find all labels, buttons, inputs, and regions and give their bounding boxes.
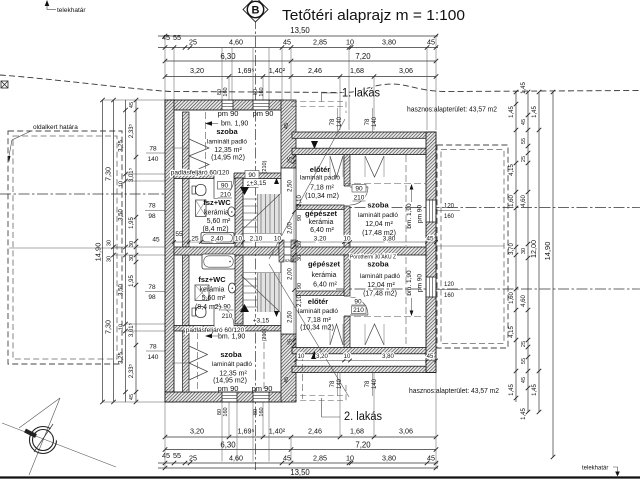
- svg-text:30: 30: [297, 255, 303, 261]
- svg-text:160: 160: [444, 293, 455, 299]
- svg-text:7,30: 7,30: [104, 167, 113, 181]
- svg-text:2,40: 2,40: [211, 236, 224, 243]
- svg-text:+3,15: +3,15: [253, 318, 270, 325]
- axis horizontal right lower dash-dot: [336, 288, 640, 290]
- svg-text:4,60: 4,60: [521, 195, 527, 207]
- svg-text:12,00: 12,00: [529, 240, 538, 258]
- svg-text:12,04 m²: 12,04 m²: [367, 282, 395, 289]
- label bm 1,90 bottom szoba: [205, 334, 212, 338]
- svg-text:(8,4 m2): (8,4 m2): [195, 304, 221, 311]
- svg-text:78: 78: [330, 380, 336, 387]
- svg-text:78: 78: [149, 344, 157, 351]
- svg-text:4,15: 4,15: [509, 164, 515, 176]
- svg-text:bm. 1,90: bm. 1,90: [406, 203, 413, 229]
- svg-text:(17,48 m2): (17,48 m2): [363, 291, 397, 298]
- svg-text:1,45: 1,45: [532, 106, 538, 118]
- svg-text:12,04 m²: 12,04 m²: [365, 221, 393, 228]
- svg-text:160: 160: [259, 87, 265, 96]
- knee wall strip upper left: [183, 112, 190, 247]
- svg-text:45: 45: [283, 454, 291, 463]
- window opening right wall upper: [427, 200, 436, 222]
- svg-text:45: 45: [521, 377, 527, 383]
- stair walk line lower: [241, 275, 280, 312]
- svg-text:hasznos:alapterület: 43,57 m2: hasznos:alapterület: 43,57 m2: [407, 105, 497, 114]
- svg-text:4,60: 4,60: [229, 454, 243, 463]
- svg-text:1. lakás: 1. lakás: [342, 88, 380, 100]
- svg-text:140: 140: [337, 116, 343, 127]
- svg-text:210: 210: [354, 195, 365, 202]
- svg-text:2. lakás: 2. lakás: [344, 411, 382, 423]
- toilet bottom unit: [192, 308, 196, 316]
- witness lines top: [164, 36, 166, 100]
- svg-text:3,80: 3,80: [382, 454, 396, 463]
- headroom dashed line right szoba top: [405, 155, 407, 246]
- svg-text:2,10: 2,10: [250, 236, 263, 243]
- svg-text:kerámia: kerámia: [309, 219, 334, 226]
- wall right of stairs top thin: [281, 168, 296, 247]
- party wall right segment: [296, 247, 436, 255]
- svg-text:45: 45: [427, 454, 435, 463]
- svg-text:2,00: 2,00: [288, 222, 294, 234]
- svg-text:45: 45: [152, 237, 160, 244]
- svg-text:3,50: 3,50: [119, 284, 125, 296]
- svg-text:30: 30: [129, 255, 135, 261]
- svg-text:3,20: 3,20: [190, 427, 204, 436]
- property line bottom solid: [0, 476, 640, 478]
- svg-text:pm 90: pm 90: [218, 109, 239, 118]
- svg-text:98: 98: [148, 294, 156, 301]
- bathtub top unit: [201, 233, 234, 244]
- svg-text:45: 45: [426, 236, 434, 243]
- svg-text:szoba: szoba: [367, 260, 389, 269]
- svg-text:30: 30: [107, 256, 113, 262]
- wall under szoba top: [174, 173, 281, 179]
- svg-text:előtér: előtér: [308, 297, 329, 306]
- svg-text:(10,34 m2): (10,34 m2): [300, 325, 334, 332]
- svg-text:1,45: 1,45: [521, 82, 527, 94]
- boundary monument box left: [1, 81, 8, 88]
- window opening bottom wall 2: [253, 393, 269, 402]
- svg-text:fsz+WC: fsz+WC: [198, 275, 226, 284]
- svg-text:210: 210: [222, 313, 233, 320]
- roof edge band top right wing: [292, 132, 436, 138]
- svg-text:7,18 m²: 7,18 m²: [307, 317, 331, 324]
- wall eloter szoba bottom: [344, 255, 350, 348]
- headroom dashed line right szoba bottom: [405, 257, 407, 344]
- svg-text:55: 55: [521, 358, 527, 364]
- entry arrow top: [311, 141, 318, 149]
- door label fsz+WC top: [218, 182, 232, 190]
- svg-text:12,35 m²: 12,35 m²: [219, 371, 247, 378]
- svg-text:55: 55: [173, 451, 181, 460]
- svg-text:gépészet: gépészet: [305, 209, 338, 218]
- svg-text:1,60: 1,60: [509, 292, 515, 304]
- north arrow construction lines: [2, 423, 116, 467]
- dim row bottom detail: [158, 462, 438, 464]
- wall right of stairs bottom thin: [281, 255, 296, 334]
- wall top exterior left block: [165, 100, 283, 110]
- svg-text:45: 45: [283, 38, 291, 47]
- svg-text:210: 210: [220, 192, 231, 199]
- svg-text:laminált padló: laminált padló: [360, 273, 400, 280]
- svg-text:140: 140: [337, 378, 343, 389]
- roof window chevrons bottom right wing: [330, 324, 343, 345]
- stair lower flight: [258, 273, 282, 312]
- svg-text:55: 55: [173, 33, 181, 42]
- svg-text:78: 78: [148, 203, 156, 210]
- svg-text:90: 90: [248, 172, 256, 179]
- neighbour outline dashed rect left: [8, 131, 122, 364]
- svg-text:45: 45: [129, 394, 135, 400]
- svg-text:90: 90: [297, 283, 303, 289]
- dim col left detail 2: [135, 100, 137, 402]
- svg-text:78: 78: [365, 380, 371, 387]
- svg-text:pm 90: pm 90: [417, 274, 424, 292]
- svg-text:3,50: 3,50: [119, 209, 125, 221]
- svg-text:2,85: 2,85: [313, 454, 327, 463]
- svg-text:kerámia: kerámia: [204, 210, 229, 217]
- svg-text:3,70: 3,70: [509, 243, 515, 255]
- svg-text:160: 160: [444, 214, 455, 220]
- svg-text:160: 160: [223, 87, 229, 96]
- svg-text:1,45: 1,45: [509, 384, 515, 396]
- svg-text:25: 25: [521, 341, 527, 347]
- wall eloter gepeszet top: [296, 205, 344, 210]
- svg-text:3,80: 3,80: [382, 354, 394, 360]
- wall left exterior: [165, 100, 174, 402]
- window opening top wall 1: [222, 101, 233, 110]
- north arrow needle: [25, 431, 36, 437]
- svg-text:szoba: szoba: [216, 127, 238, 136]
- svg-text:160: 160: [223, 407, 229, 416]
- section diagonal bottom: [269, 264, 349, 397]
- roof window chevrons top right wing: [330, 156, 343, 177]
- svg-text:oldalkert határa: oldalkert határa: [33, 124, 78, 131]
- svg-text:pm 90: pm 90: [252, 384, 273, 393]
- entry axis dashed bottom: [302, 354, 304, 399]
- svg-text:10: 10: [346, 454, 354, 463]
- entry canopy dashed top: [291, 101, 346, 103]
- svg-text:30: 30: [129, 241, 135, 247]
- dim row top 6,30 7,20: [165, 60, 436, 62]
- svg-text:10: 10: [119, 181, 125, 187]
- svg-text:25: 25: [189, 38, 197, 47]
- svg-text:pm 90: pm 90: [218, 384, 239, 393]
- wall stairs left bottom: [235, 255, 243, 324]
- svg-text:kerámia: kerámia: [312, 272, 337, 279]
- svg-text:pm 90: pm 90: [253, 109, 274, 118]
- svg-text:1,40²: 1,40²: [269, 427, 286, 436]
- wall bottom exterior left block: [165, 392, 283, 402]
- svg-text:55: 55: [175, 231, 183, 238]
- svg-text:előtér: előtér: [310, 165, 331, 174]
- dim row top detail: [158, 47, 438, 49]
- svg-text:1,40²: 1,40²: [269, 66, 286, 75]
- dim col left 14,90: [102, 100, 104, 402]
- svg-text:padlásfeljáró 60/120: padlásfeljáró 60/120: [171, 170, 230, 177]
- svg-text:10: 10: [235, 236, 243, 243]
- svg-text:2,46: 2,46: [308, 427, 322, 436]
- svg-text:25: 25: [189, 454, 197, 463]
- svg-text:3,20: 3,20: [314, 236, 327, 243]
- svg-text:45: 45: [521, 119, 527, 125]
- svg-text:78: 78: [149, 146, 157, 153]
- svg-text:10: 10: [274, 236, 282, 243]
- svg-text:3,01⁵: 3,01⁵: [128, 322, 135, 337]
- svg-text:telekhatár: telekhatár: [57, 7, 86, 14]
- dim col right 1: [515, 92, 517, 402]
- svg-text:pm 90: pm 90: [417, 205, 424, 223]
- svg-text:laminált padló: laminált padló: [298, 308, 338, 315]
- svg-text:25: 25: [191, 236, 199, 243]
- knee wall strip lower left: [183, 255, 190, 392]
- wall right exterior: [426, 132, 436, 373]
- svg-text:90: 90: [221, 183, 229, 190]
- svg-text:3,20: 3,20: [190, 66, 204, 75]
- entry canopy dashed bottom: [291, 395, 346, 397]
- washing machine bottom unit: [195, 285, 209, 301]
- svg-text:45: 45: [129, 102, 135, 108]
- wall over szoba bottom: [174, 326, 281, 332]
- dim row bottom 13,50: [158, 467, 438, 469]
- svg-text:5,60 m²: 5,60 m²: [202, 295, 226, 302]
- svg-text:98: 98: [148, 213, 156, 220]
- svg-text:telekhatár: telekhatár: [582, 466, 608, 472]
- pier wall right of left block bottom: [281, 334, 296, 402]
- svg-text:13,50: 13,50: [290, 26, 310, 35]
- interior dim row top unit: [174, 241, 436, 243]
- dim col left 7,30: [113, 100, 115, 402]
- svg-text:140: 140: [148, 354, 159, 361]
- svg-text:45: 45: [162, 451, 170, 460]
- svg-text:bm. 1,90: bm. 1,90: [218, 334, 245, 341]
- svg-text:3,25: 3,25: [119, 352, 125, 364]
- svg-text:(210): (210): [262, 160, 268, 173]
- svg-text:2,46: 2,46: [308, 66, 322, 75]
- washing machine top unit: [196, 200, 207, 217]
- svg-text:laminált padló: laminált padló: [300, 175, 340, 182]
- svg-text:90: 90: [355, 186, 363, 193]
- svg-text:2,10: 2,10: [297, 295, 303, 307]
- roof window chevrons left szoba bottom: [189, 346, 208, 363]
- svg-text:2,50: 2,50: [288, 311, 294, 323]
- svg-text:5,60 m²: 5,60 m²: [207, 218, 231, 225]
- svg-text:1,95: 1,95: [129, 275, 135, 287]
- svg-text:kerámia: kerámia: [200, 287, 225, 294]
- svg-text:55: 55: [521, 138, 527, 144]
- interior dim col bottom unit: [293, 255, 295, 348]
- dim col left detail 1: [125, 100, 127, 402]
- witness lines left: [103, 99, 166, 101]
- washbasin top unit: [228, 207, 235, 217]
- svg-text:25: 25: [521, 156, 527, 162]
- dim row top 13,50: [158, 35, 438, 37]
- svg-text:1,45: 1,45: [532, 384, 538, 396]
- axis horizontal right upper dash-dot: [336, 207, 640, 209]
- svg-text:3,06: 3,06: [399, 66, 413, 75]
- svg-text:4,60: 4,60: [229, 38, 243, 47]
- svg-text:2,00: 2,00: [288, 268, 294, 280]
- svg-text:120: 120: [444, 282, 455, 288]
- svg-text:2,85: 2,85: [313, 38, 327, 47]
- svg-text:140: 140: [372, 378, 378, 389]
- headroom dashed line left szoba top: [205, 112, 207, 173]
- svg-text:90: 90: [354, 299, 362, 306]
- svg-text:3,06: 3,06: [399, 427, 413, 436]
- svg-text:90: 90: [223, 304, 231, 311]
- svg-text:bm. 1,90: bm. 1,90: [406, 270, 413, 296]
- svg-text:1,68: 1,68: [350, 427, 364, 436]
- svg-text:7,20: 7,20: [355, 52, 371, 61]
- roof outline dashed rect right: [437, 145, 508, 348]
- svg-text:2,50: 2,50: [288, 180, 294, 192]
- door swing eloter szoba top: [350, 187, 368, 205]
- svg-text:6,30: 6,30: [220, 52, 236, 61]
- svg-text:(210): (210): [262, 328, 268, 341]
- interior dim col top unit: [293, 154, 295, 247]
- window opening bottom wall 1: [222, 393, 237, 402]
- pier wall right of left block top: [281, 100, 296, 168]
- door swing fsz+WC bottom: [214, 306, 234, 326]
- svg-text:140: 140: [148, 156, 159, 163]
- svg-text:1,69⁵: 1,69⁵: [238, 66, 255, 75]
- section diagonal top: [269, 119, 345, 259]
- door swing fsz+WC top: [214, 179, 234, 199]
- axis B vertical dash-dot: [255, 18, 257, 470]
- svg-text:25: 25: [288, 339, 294, 345]
- stair walk line upper: [241, 194, 280, 231]
- witness lines bottom: [164, 402, 166, 468]
- wall eloter szoba top: [344, 155, 350, 248]
- svg-text:6,40 m²: 6,40 m²: [313, 282, 337, 289]
- svg-text:13,50: 13,50: [290, 468, 310, 477]
- door label eloter top: [352, 185, 366, 193]
- svg-text:gépészet: gépészet: [308, 260, 341, 269]
- bathtub bottom unit: [202, 254, 235, 269]
- dim col right 4: [552, 92, 554, 457]
- svg-text:laminált padló: laminált padló: [358, 212, 398, 219]
- wall eloter gepeszet bottom: [296, 291, 344, 296]
- svg-text:45: 45: [427, 354, 434, 360]
- svg-text:78: 78: [148, 284, 156, 291]
- svg-text:hasznos:alapterület: 43,57 m2: hasznos:alapterület: 43,57 m2: [409, 386, 499, 395]
- interior dim row bottom right wing: [296, 360, 436, 362]
- label telekhatar top: [47, 3, 56, 9]
- svg-text:30: 30: [297, 241, 303, 247]
- roof edge band bottom right wing: [292, 366, 436, 372]
- svg-text:140: 140: [372, 116, 378, 127]
- dim row bottom room sizes: [165, 436, 436, 438]
- svg-text:10: 10: [346, 38, 354, 47]
- svg-text:25: 25: [288, 157, 294, 163]
- svg-text:(10,34 m2): (10,34 m2): [305, 193, 339, 200]
- window opening top wall 2: [253, 101, 269, 110]
- svg-text:120: 120: [444, 204, 455, 210]
- svg-text:45: 45: [427, 38, 435, 47]
- dim col right 2: [527, 92, 529, 412]
- svg-text:45: 45: [284, 377, 290, 383]
- knee wall band top right wing: [292, 148, 436, 154]
- svg-text:3,25: 3,25: [119, 140, 125, 152]
- svg-text:4,60: 4,60: [521, 295, 527, 307]
- window opening right wall lower: [427, 277, 436, 297]
- svg-text:1,45: 1,45: [509, 106, 515, 118]
- north arrow circle: [30, 427, 57, 454]
- section marker B: [243, 0, 268, 22]
- label 2. lakas: [321, 398, 323, 417]
- svg-text:6,40 m²: 6,40 m²: [310, 227, 334, 234]
- svg-text:7,20: 7,20: [355, 441, 371, 450]
- svg-text:90: 90: [297, 215, 303, 221]
- svg-text:(14,95 m2): (14,95 m2): [211, 155, 245, 162]
- svg-text:1,95: 1,95: [129, 217, 135, 229]
- property line telekhatar top: [0, 75, 640, 93]
- toilet top unit: [192, 186, 196, 194]
- door swing eloter szoba bottom: [350, 297, 368, 315]
- dim col right 3: [538, 92, 540, 412]
- svg-text:2,33⁵: 2,33⁵: [128, 123, 135, 138]
- svg-text:1,68: 1,68: [350, 66, 364, 75]
- svg-text:78: 78: [330, 118, 336, 125]
- svg-text:10: 10: [119, 324, 125, 330]
- svg-text:7,30: 7,30: [104, 320, 113, 334]
- svg-text:1,45: 1,45: [521, 408, 527, 420]
- svg-text:Tetőtéri alaprajz m = 1:100: Tetőtéri alaprajz m = 1:100: [282, 7, 465, 24]
- svg-text:szoba: szoba: [367, 201, 389, 210]
- svg-text:3,80: 3,80: [382, 38, 396, 47]
- svg-text:6,30: 6,30: [220, 441, 236, 450]
- stair upper flight: [258, 194, 282, 233]
- svg-text:78: 78: [365, 118, 371, 125]
- svg-text:30: 30: [107, 240, 113, 246]
- svg-text:1,69⁵: 1,69⁵: [238, 427, 255, 436]
- svg-text:210: 210: [353, 307, 364, 314]
- svg-text:2,10: 2,10: [297, 195, 303, 207]
- svg-text:4,15: 4,15: [509, 326, 515, 338]
- entry arrow bottom: [311, 351, 318, 359]
- svg-text:10: 10: [298, 354, 305, 360]
- svg-text:14,90: 14,90: [94, 243, 103, 262]
- svg-text:laminált padló: laminált padló: [207, 138, 247, 145]
- headroom dashed lines left szoba bottom: [197, 332, 199, 392]
- svg-text:fsz+WC: fsz+WC: [203, 198, 231, 207]
- axis horizontal left dash-dot: [0, 193, 165, 195]
- svg-text:12,35 m²: 12,35 m²: [214, 147, 242, 154]
- svg-text:14,90: 14,90: [543, 242, 552, 261]
- svg-text:szell.: szell.: [285, 258, 295, 263]
- svg-text:160: 160: [259, 407, 265, 416]
- svg-text:10: 10: [344, 354, 351, 360]
- svg-text:laminált padló: laminált padló: [212, 361, 252, 368]
- roof window chevrons left szoba top: [189, 139, 209, 156]
- wall stairs left top: [235, 178, 243, 247]
- svg-text:45: 45: [162, 33, 170, 42]
- svg-text:B: B: [252, 5, 260, 17]
- knee wall band bottom right wing: [292, 348, 436, 354]
- svg-text:+3,15: +3,15: [250, 180, 267, 187]
- svg-text:3,20: 3,20: [316, 354, 328, 360]
- party wall junction verticals: [279, 240, 284, 262]
- dim row top room sizes: [165, 76, 436, 78]
- party wall left segment: [174, 247, 279, 255]
- svg-text:1,60: 1,60: [509, 195, 515, 207]
- svg-text:7,18 m²: 7,18 m²: [310, 185, 334, 192]
- svg-text:(17,48 m2): (17,48 m2): [362, 230, 396, 237]
- svg-text:(8,4 m2): (8,4 m2): [202, 226, 228, 233]
- svg-text:10: 10: [343, 236, 351, 243]
- door label szoba hatch top: [245, 171, 259, 179]
- svg-text:szoba: szoba: [220, 350, 242, 359]
